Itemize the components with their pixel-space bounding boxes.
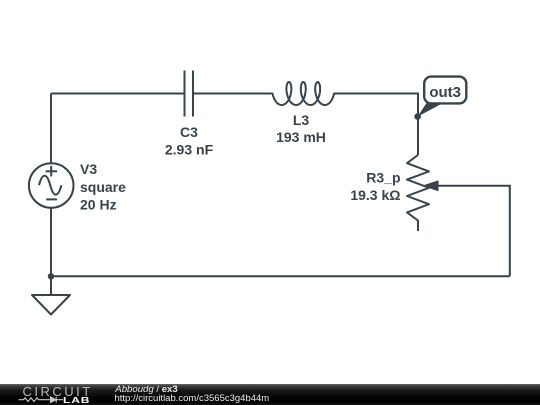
logo CIRCUIT — [23, 386, 93, 397]
svg-text:L3: L3 — [293, 112, 310, 128]
node dot ground junction — [48, 273, 54, 279]
logo diode symbol — [44, 397, 63, 403]
label V3 designator — [80, 161, 97, 177]
svg-text:20 Hz: 20 Hz — [80, 197, 117, 213]
label R3_p designator — [366, 170, 400, 186]
wire source to ground — [50, 208, 52, 296]
wire top-left vertical — [50, 94, 52, 165]
label C3 value 2.93 nF — [165, 142, 214, 158]
label L3 designator — [293, 112, 310, 128]
logo resistor symbol — [19, 398, 45, 402]
potentiometer R3_p — [407, 155, 429, 231]
label V3 type square — [80, 179, 126, 195]
svg-text:V3: V3 — [80, 161, 97, 177]
ground — [32, 295, 70, 315]
label node name out3 — [429, 84, 461, 101]
svg-text:2.93 nF: 2.93 nF — [165, 142, 214, 158]
voltage source V3 circle — [29, 163, 74, 208]
wiper wire — [438, 186, 510, 276]
out3 bubble — [424, 77, 466, 104]
svg-text:19.3 kΩ: 19.3 kΩ — [350, 187, 400, 203]
node dot out3 — [414, 113, 421, 120]
logo symbols and LAB — [0, 384, 100, 405]
attribution text — [115, 385, 177, 395]
voltage source plus sign — [46, 166, 57, 177]
svg-text:square: square — [80, 179, 126, 195]
inductor L3 — [273, 82, 335, 105]
svg-text:C3: C3 — [180, 124, 198, 140]
wiper arrow head — [422, 180, 439, 191]
voltage source sine wave — [39, 176, 61, 195]
label R3_p value 19.3 kOhm — [350, 187, 400, 203]
wire top horizontal left — [51, 93, 185, 95]
svg-text:out3: out3 — [429, 84, 461, 101]
url text — [115, 394, 270, 404]
wire cap to inductor — [193, 93, 273, 95]
label L3 value 193 mH — [276, 129, 326, 145]
svg-text:R3_p: R3_p — [366, 170, 400, 186]
label C3 designator — [180, 124, 198, 140]
footer bar — [0, 384, 540, 405]
capacitor C3 — [185, 71, 194, 117]
wire inductor to corner — [334, 94, 418, 156]
wire bottom — [51, 275, 510, 277]
label V3 value 20 Hz — [80, 197, 117, 213]
svg-text:193 mH: 193 mH — [276, 129, 326, 145]
voltage source minus sign — [46, 198, 57, 200]
out3 bubble tail — [418, 102, 445, 116]
